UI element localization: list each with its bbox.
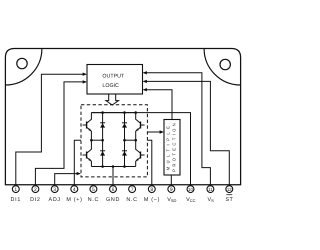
- svg-text:2: 2: [34, 187, 37, 193]
- transistor Q4: [136, 140, 145, 166]
- junction node M+: [90, 139, 93, 142]
- junction mid right D4: [123, 139, 126, 142]
- mounting corner arc left: [5, 49, 42, 86]
- pin 8: [148, 186, 155, 193]
- svg-text:M (+): M (+): [66, 197, 82, 203]
- arrowhead ST feedback: [143, 80, 147, 83]
- svg-text:PROTECTION: PROTECTION: [171, 121, 176, 172]
- svg-text:8: 8: [150, 187, 153, 193]
- svg-text:ST: ST: [226, 197, 234, 203]
- pin 5: [90, 186, 97, 193]
- pin 4: [71, 186, 78, 193]
- wire VCC rail to bridge top: [91, 113, 190, 186]
- wire M- from bridge right node: [147, 140, 151, 186]
- diode D4: [122, 140, 127, 166]
- diode D2: [122, 113, 127, 141]
- svg-text:GND: GND: [106, 197, 120, 203]
- arrowhead protection feedback: [143, 88, 147, 91]
- junction top rail Q2: [134, 111, 137, 114]
- bridge mid right rail: [125, 139, 136, 141]
- mounting hole left: [17, 58, 27, 68]
- junction node GND: [112, 165, 115, 168]
- pin labels: [11, 197, 234, 203]
- wire VS to output logic out1: [144, 73, 210, 186]
- svg-text:12: 12: [227, 187, 232, 192]
- svg-text:DI1: DI1: [11, 197, 22, 203]
- arrowhead VS feedback: [143, 71, 147, 74]
- junction mid left D3: [101, 139, 104, 142]
- junction bottom rail D3: [101, 165, 104, 168]
- multiple protection block U2: [164, 120, 180, 176]
- svg-text:1: 1: [14, 187, 17, 193]
- wire DI1 to output logic input 1: [16, 74, 86, 186]
- svg-text:MULTIPLE: MULTIPLE: [166, 123, 171, 171]
- overline for ST: [226, 194, 232, 196]
- svg-text:5: 5: [92, 187, 95, 193]
- wire ADJ to bridge: [55, 174, 80, 186]
- svg-text:M (−): M (−): [144, 197, 160, 203]
- transistor Q1: [83, 113, 92, 141]
- junction node M-: [134, 139, 137, 142]
- wire VSD from protection block: [170, 175, 172, 186]
- svg-text:VCC: VCC: [186, 197, 195, 203]
- svg-text:N.C: N.C: [88, 197, 99, 203]
- pin 10: [187, 186, 194, 193]
- junction bottom rail D4: [123, 165, 126, 168]
- wire M+ to bridge left node: [74, 140, 81, 186]
- pin 3: [51, 186, 58, 193]
- junction top rail D2: [123, 111, 126, 114]
- pin 9: [168, 186, 175, 193]
- junction top rail D1: [101, 111, 104, 114]
- svg-text:ADJ: ADJ: [49, 197, 61, 203]
- svg-text:OUTPUT: OUTPUT: [102, 74, 125, 80]
- wire GND from bridge bottom rail: [112, 167, 114, 187]
- wire protection to output logic out3: [144, 90, 172, 120]
- svg-text:3: 3: [53, 187, 56, 193]
- svg-text:11: 11: [208, 187, 213, 192]
- H-bridge dashed box: [81, 105, 147, 177]
- mounting hole right: [220, 59, 230, 69]
- mounting corner arc right: [204, 49, 241, 86]
- svg-text:4: 4: [73, 187, 76, 193]
- svg-text:VS: VS: [207, 197, 214, 203]
- package outline: [5, 49, 240, 185]
- pin 12: [226, 186, 233, 193]
- transistor Q2: [136, 113, 145, 141]
- pin stub NC pin7: [131, 185, 133, 186]
- arrowhead protection input: [160, 130, 164, 133]
- diode D1: [100, 113, 105, 141]
- transistor Q3: [83, 140, 92, 166]
- arrowhead DI2 input: [83, 80, 87, 83]
- bridge mid left rail: [91, 139, 102, 141]
- svg-text:LOGIC: LOGIC: [102, 83, 119, 89]
- svg-text:VSD: VSD: [167, 197, 176, 203]
- bridge top rail: [91, 112, 135, 114]
- hollow bus arrow logic to bridge: [106, 94, 119, 105]
- svg-text:6: 6: [112, 187, 115, 193]
- pin stub NC pin5: [92, 185, 94, 186]
- diode D3: [100, 140, 105, 166]
- pin 11: [207, 186, 214, 193]
- svg-text:DI2: DI2: [30, 197, 41, 203]
- pin 2: [32, 186, 39, 193]
- pin 6: [110, 186, 117, 193]
- wire bridge to protection input: [147, 131, 162, 133]
- svg-text:9: 9: [170, 187, 173, 193]
- pin 7: [129, 186, 136, 193]
- svg-text:N.C: N.C: [126, 197, 137, 203]
- bridge bottom rail: [91, 166, 135, 168]
- output logic block U1: [87, 65, 143, 95]
- wire DI2 to output logic input 2: [35, 82, 85, 186]
- svg-text:10: 10: [188, 187, 193, 192]
- svg-text:7: 7: [131, 187, 134, 193]
- pin 1: [12, 186, 19, 193]
- wire ST to output logic out2: [144, 81, 229, 186]
- arrowhead ADJ input: [77, 172, 81, 175]
- arrowhead DI1 input: [83, 73, 87, 76]
